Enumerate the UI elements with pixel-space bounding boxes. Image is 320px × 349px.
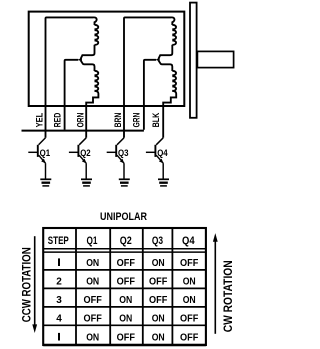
svg-text:Q3: Q3	[152, 235, 163, 247]
svg-text:OFF: OFF	[180, 258, 198, 269]
svg-text:OFF: OFF	[149, 277, 167, 288]
svg-text:CCW ROTATION: CCW ROTATION	[19, 247, 33, 322]
svg-text:OFF: OFF	[180, 314, 198, 325]
svg-text:YEL: YEL	[34, 112, 44, 127]
svg-text:OFF: OFF	[117, 333, 135, 344]
svg-text:Q3: Q3	[118, 148, 129, 159]
svg-text:Q4: Q4	[157, 148, 168, 159]
svg-text:ON: ON	[86, 277, 99, 288]
svg-text:Q4: Q4	[182, 235, 195, 247]
svg-text:ON: ON	[152, 333, 165, 344]
svg-text:ORN: ORN	[75, 113, 85, 128]
svg-text:ON: ON	[152, 258, 165, 269]
svg-text:Q2: Q2	[80, 148, 91, 159]
svg-text:BLK: BLK	[151, 112, 161, 127]
svg-text:OFF: OFF	[117, 277, 135, 288]
svg-text:ON: ON	[86, 333, 99, 344]
svg-text:4: 4	[56, 314, 62, 325]
svg-text:STEP: STEP	[48, 235, 69, 247]
svg-text:UNIPOLAR: UNIPOLAR	[100, 211, 147, 223]
svg-text:ON: ON	[183, 277, 196, 288]
svg-text:ON: ON	[119, 295, 132, 306]
svg-text:ON: ON	[86, 258, 99, 269]
svg-text:OFF: OFF	[180, 333, 198, 344]
svg-text:2: 2	[56, 277, 62, 288]
svg-text:OFF: OFF	[84, 295, 102, 306]
svg-text:GRN: GRN	[131, 113, 141, 128]
svg-text:BRN: BRN	[113, 113, 123, 128]
svg-text:ON: ON	[119, 314, 132, 325]
svg-text:ON: ON	[152, 314, 165, 325]
svg-text:RED: RED	[53, 112, 63, 127]
svg-text:Q1: Q1	[87, 235, 98, 247]
svg-text:3: 3	[56, 295, 62, 306]
svg-text:OFF: OFF	[149, 295, 167, 306]
svg-text:ON: ON	[183, 295, 196, 306]
svg-text:Q1: Q1	[40, 148, 51, 159]
svg-text:Q2: Q2	[120, 235, 132, 247]
svg-text:OFF: OFF	[84, 314, 102, 325]
svg-text:CW ROTATION: CW ROTATION	[221, 260, 235, 332]
svg-text:OFF: OFF	[117, 258, 135, 269]
